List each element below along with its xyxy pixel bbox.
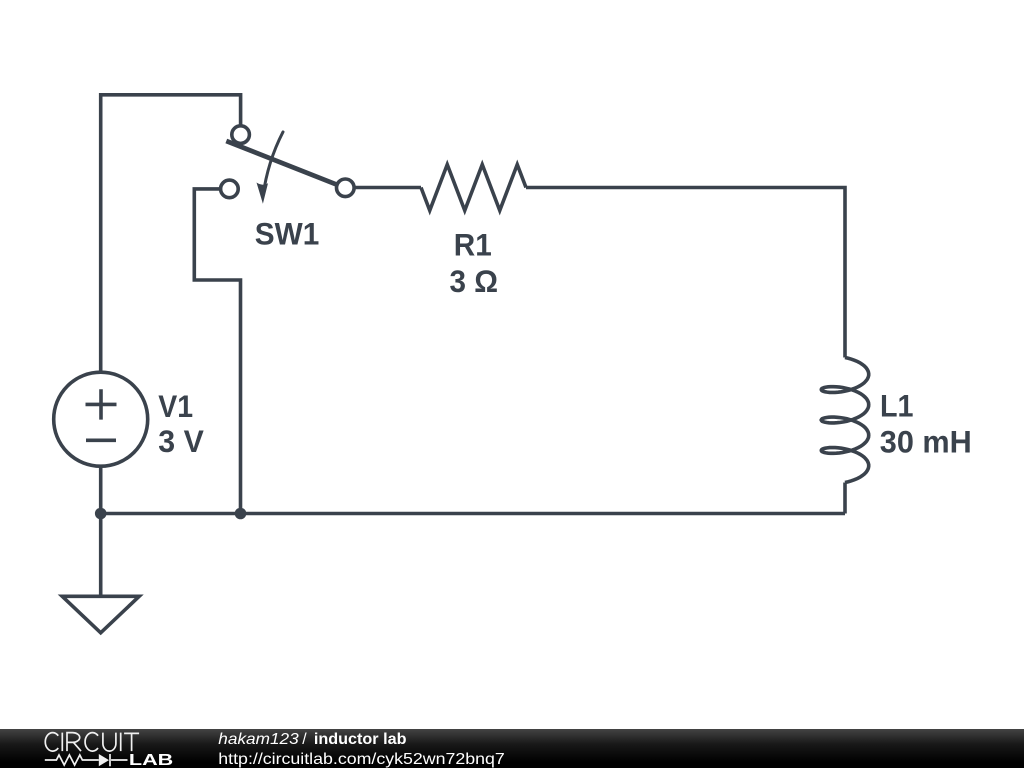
svg-text:LAB: LAB xyxy=(129,752,173,768)
svg-text:V1: V1 xyxy=(158,388,193,424)
svg-text:3 V: 3 V xyxy=(158,423,204,459)
ground wire xyxy=(99,514,103,597)
svg-text:L1: L1 xyxy=(880,387,914,423)
svg-text:/: / xyxy=(302,731,307,748)
svg-text:R1: R1 xyxy=(454,226,492,262)
CircuitLab logo: resistor-diode squiggle xyxy=(45,754,128,766)
wire SW1 to R1 xyxy=(354,186,421,190)
wire top-left: V1 top to SW1 throw terminal xyxy=(101,95,241,372)
wire L1 bottom to ground net xyxy=(843,483,847,514)
svg-text:SW1: SW1 xyxy=(255,216,319,252)
svg-text:inductor lab: inductor lab xyxy=(314,731,407,748)
junction at V1 / ground net xyxy=(95,508,107,520)
wire R1 to L1 (top-right corner) xyxy=(526,188,845,358)
wire from SW1 pole terminal down to ground net xyxy=(194,189,240,514)
switch SW1 xyxy=(221,126,355,204)
svg-text:http://circuitlab.com/cyk52wn7: http://circuitlab.com/cyk52wn72bnq7 xyxy=(218,751,505,768)
footer bar xyxy=(0,729,1024,768)
wire V1 bottom to junction xyxy=(99,466,103,513)
svg-text:3 Ω: 3 Ω xyxy=(450,263,499,299)
CircuitLab logo: CIRCUIT xyxy=(45,733,139,752)
svg-text:30 mH: 30 mH xyxy=(880,423,972,459)
voltage source V1 xyxy=(54,372,148,466)
junction at SW1 branch / ground net xyxy=(235,508,247,520)
ground xyxy=(62,596,139,633)
bottom ground net wire xyxy=(101,512,845,516)
svg-text:hakam123: hakam123 xyxy=(218,731,299,748)
inductor L1 xyxy=(821,358,869,483)
resistor R1 xyxy=(421,165,526,211)
